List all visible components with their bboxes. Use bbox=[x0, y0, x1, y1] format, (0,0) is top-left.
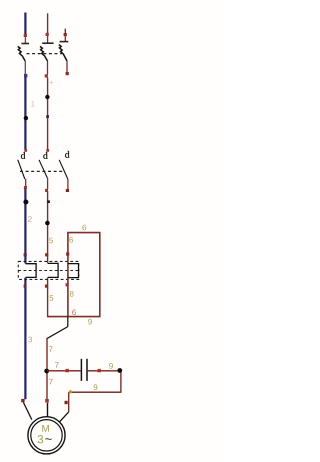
wire d1 bottom terminal bbox=[25, 179, 27, 187]
node square box-left below FR bbox=[66, 283, 69, 286]
label 6 above box bbox=[82, 225, 86, 231]
contact to capacitor node bbox=[47, 327, 68, 339]
label 7 bbox=[49, 346, 53, 352]
motor label tilde bbox=[45, 438, 51, 440]
junction dot capacitor branch bbox=[44, 369, 49, 374]
node square L1 below FR bbox=[24, 285, 27, 288]
breaker QF pole3 T-bar bbox=[60, 41, 69, 43]
overload FR heater element 2 bbox=[48, 263, 58, 277]
contactor d pole2 label bbox=[43, 152, 47, 159]
label 6 near box bottom bbox=[72, 309, 76, 315]
contactor d pole2 contact bbox=[39, 160, 47, 178]
label 9 cap bbox=[109, 363, 113, 369]
label 9 below box bbox=[88, 319, 92, 325]
label 2 bbox=[28, 216, 32, 222]
wire L3 stub to QF pole3 bbox=[64, 36, 66, 41]
node square L1 top bbox=[24, 34, 27, 37]
contactor d pole3 contact bbox=[59, 160, 68, 179]
wire box loop right branch bbox=[47, 233, 99, 317]
wire d3 bottom terminal bbox=[67, 179, 69, 191]
capacitor C plate left bbox=[80, 359, 82, 381]
wire QF pole1 to node bbox=[24, 61, 26, 75]
breaker QF pole2 T-bar bbox=[42, 42, 53, 44]
node square d2 top bbox=[46, 149, 49, 152]
node square cap branch bbox=[66, 369, 69, 372]
junction dot L2 lower bbox=[45, 221, 50, 226]
wire stub from box bottom bbox=[67, 317, 69, 327]
junction dot cap end bbox=[117, 368, 122, 373]
wire L1 top thick blue bbox=[24, 13, 26, 36]
node black square L2 bbox=[47, 200, 50, 203]
node square L2 top bbox=[46, 33, 49, 36]
label 3 bbox=[28, 337, 32, 343]
breaker QF pole3 contact bbox=[59, 45, 67, 61]
wire 2 L1 blue bbox=[24, 189, 26, 264]
wire motor right lead bbox=[68, 392, 70, 412]
wire QF pole3 to node bbox=[66, 61, 68, 72]
label 7 low bbox=[49, 379, 53, 385]
label 5 lower bbox=[50, 295, 54, 301]
breaker QF pole1 T-bar bbox=[22, 43, 30, 45]
label 1 bbox=[31, 101, 34, 107]
node square d2 bottom bbox=[45, 189, 48, 192]
wire capacitor branch right bbox=[88, 370, 118, 372]
junction dot L2 bbox=[45, 95, 49, 99]
wire L2 stub to QF pole2 bbox=[47, 36, 49, 43]
grid mark bbox=[49, 81, 53, 85]
wire L3 top stub bbox=[64, 29, 66, 34]
node square d1 bottom bbox=[24, 186, 27, 189]
wire d2 bottom terminal bbox=[47, 178, 49, 190]
wire into motor left bbox=[23, 402, 31, 419]
breaker QF pole1 contact bbox=[18, 46, 26, 61]
node square L2 above FR bbox=[45, 253, 48, 256]
node square box-left above FR bbox=[66, 252, 69, 255]
wire 4 L2 red bbox=[47, 78, 49, 150]
breaker QF pole2 contact bbox=[40, 46, 48, 61]
contactor d pole1 label bbox=[21, 152, 25, 159]
label 7 mid bbox=[55, 362, 59, 368]
node square motor U terminal bbox=[21, 399, 24, 402]
wire capacitor branch left bbox=[47, 370, 81, 372]
d linkage dashed bar bbox=[20, 170, 64, 172]
junction dot L1 bbox=[24, 116, 28, 120]
junction dot L1 mid bbox=[23, 200, 28, 205]
motor label M bbox=[42, 425, 49, 432]
motor M outer circle bbox=[28, 417, 65, 454]
node square L2 mid dark bbox=[46, 115, 49, 118]
contactor d pole3 label bbox=[65, 151, 69, 158]
node square d3 bottom bbox=[66, 189, 69, 192]
node square L1 above FR bbox=[24, 253, 27, 256]
label 9 return bbox=[94, 384, 98, 390]
overload FR heater element 3 bbox=[68, 264, 79, 278]
node square d1 top bbox=[24, 149, 27, 152]
QF linkage dashed bar bbox=[27, 53, 63, 55]
wire into motor middle bbox=[47, 403, 49, 417]
wire 1 L1 blue bbox=[24, 77, 26, 150]
node diamond corner bbox=[68, 390, 72, 394]
node square motor V terminal bbox=[45, 399, 49, 403]
wire L2 below FR bbox=[47, 278, 49, 318]
motor label 3 bbox=[38, 435, 44, 443]
label 5 bbox=[49, 238, 53, 244]
label 8 bbox=[70, 291, 74, 297]
wire QF pole2 to node bbox=[47, 61, 49, 75]
capacitor C plate right bbox=[86, 359, 88, 381]
label 6 inside box bbox=[69, 237, 73, 243]
wire 7 L2 red bbox=[46, 338, 48, 401]
overload FR heater element 1 bbox=[25, 264, 36, 278]
overload FR dashed frame bbox=[18, 261, 78, 279]
node square pole1 bbox=[24, 74, 27, 77]
FR linkage dashed mid line bbox=[18, 270, 78, 272]
node square cap right bbox=[98, 369, 101, 372]
node square L3 top bbox=[64, 33, 67, 36]
node square L2 below FR bbox=[45, 285, 48, 288]
wire L1 stub to QF pole1 bbox=[24, 37, 26, 44]
wire 3 L1 blue below FR bbox=[24, 278, 26, 400]
node square pole3 bbox=[66, 72, 69, 75]
node square motor W terminal bbox=[65, 401, 68, 404]
contactor d pole1 contact bbox=[18, 160, 25, 179]
wire into motor right bbox=[60, 412, 69, 422]
motor M inner circle bbox=[31, 420, 62, 451]
wire 5 L2 red bbox=[47, 191, 49, 263]
wire L2 top red bbox=[47, 13, 49, 34]
wire 9 return loop bbox=[69, 373, 121, 393]
node square pole2 bbox=[45, 74, 48, 77]
